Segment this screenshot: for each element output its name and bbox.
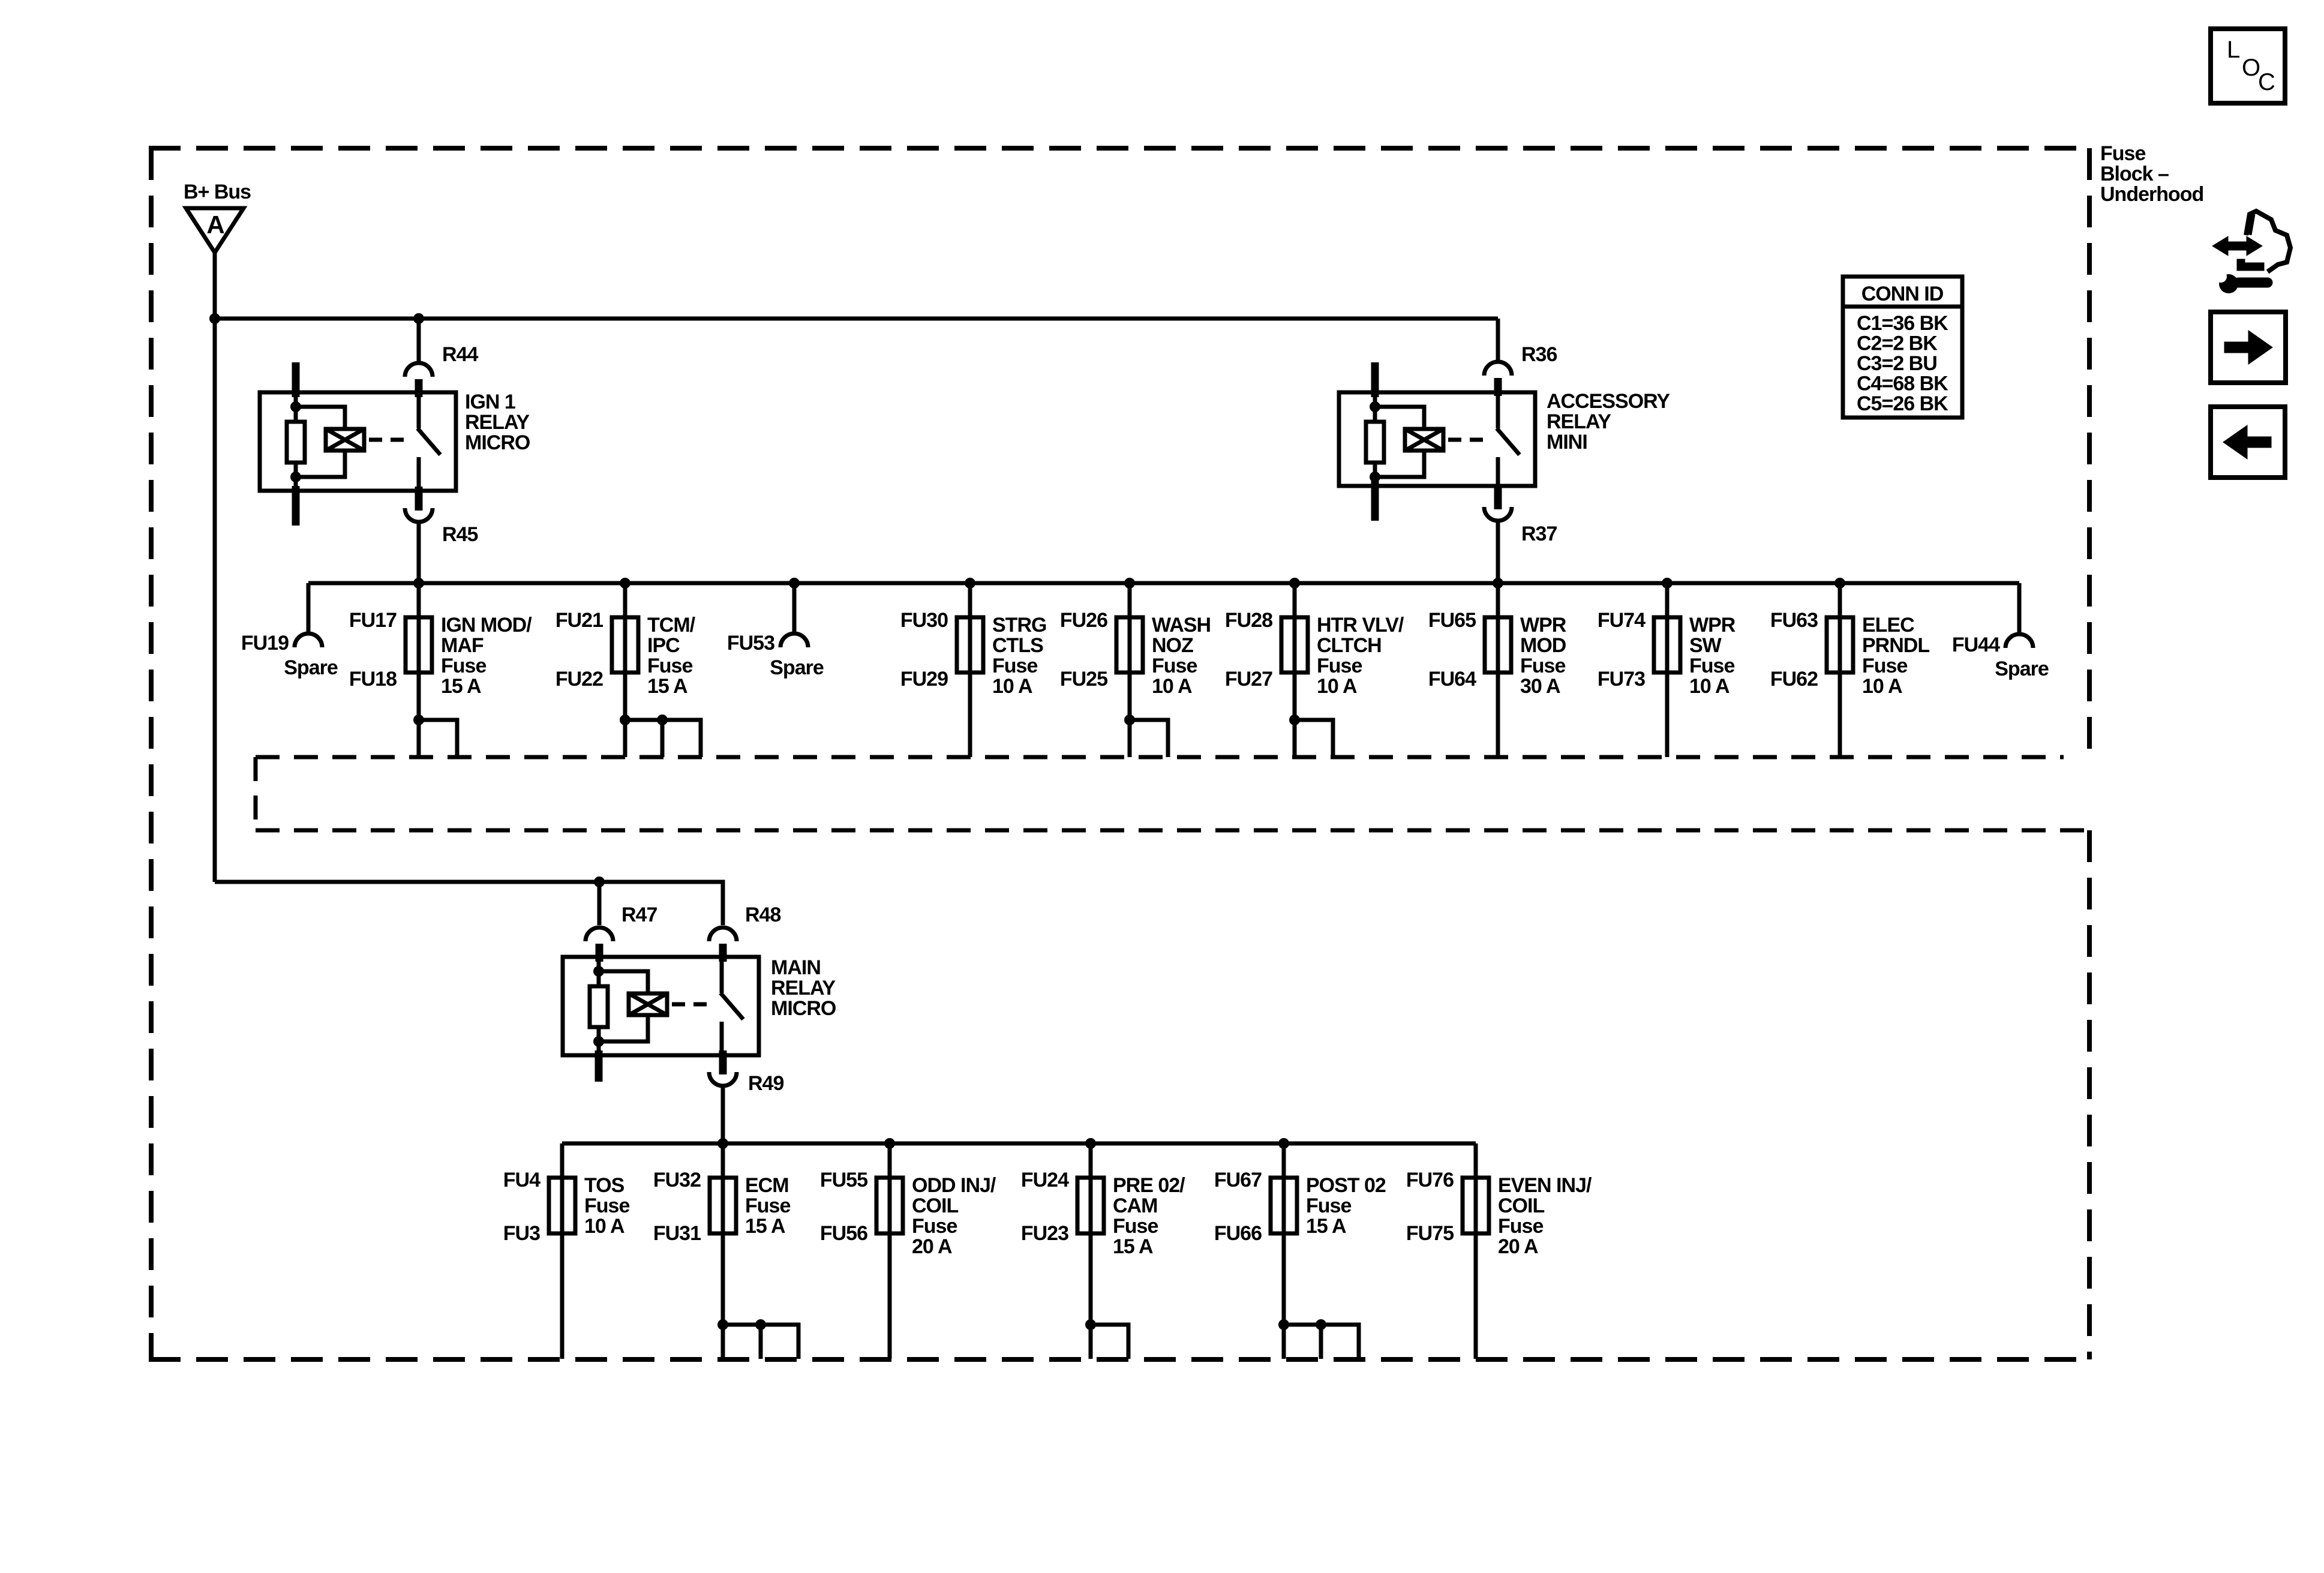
svg-text:CONN ID: CONN ID (1861, 283, 1944, 305)
fuse FU67/FU66 POST 02 (1214, 1143, 1386, 1359)
svg-text:10 A: 10 A (1689, 675, 1730, 698)
svg-text:Fuse: Fuse (1520, 655, 1565, 677)
svg-text:HTR VLV/: HTR VLV/ (1317, 614, 1404, 637)
svg-text:FU31: FU31 (653, 1222, 701, 1245)
svg-text:R45: R45 (442, 523, 478, 546)
svg-text:ACCESSORY: ACCESSORY (1547, 390, 1670, 413)
svg-text:Fuse: Fuse (1306, 1194, 1351, 1217)
svg-text:20 A: 20 A (1498, 1235, 1538, 1258)
CONN ID table (1843, 277, 1962, 418)
node B+ bus tap (209, 313, 220, 324)
svg-text:CTLS: CTLS (992, 634, 1043, 657)
fuse FU17/FU18 IGN MOD/ MAF (349, 583, 532, 757)
next page icon (right arrow) (2211, 312, 2286, 383)
svg-text:FU17: FU17 (349, 609, 397, 632)
svg-text:R44: R44 (442, 343, 478, 366)
svg-text:COIL: COIL (912, 1194, 958, 1217)
svg-text:Spare: Spare (284, 656, 338, 679)
wire R49 to fuse row 2 bus (721, 1086, 725, 1143)
svg-text:20 A: 20 A (912, 1235, 952, 1258)
svg-text:R36: R36 (1521, 343, 1557, 366)
wire B+ vertical feed (213, 253, 217, 882)
svg-text:IGN MOD/: IGN MOD/ (441, 614, 532, 637)
connector R47 (585, 903, 657, 962)
svg-text:MAF: MAF (441, 634, 484, 657)
svg-text:CLTCH: CLTCH (1317, 634, 1382, 657)
fuse FU76/FU75 EVEN INJ/ (1406, 1143, 1592, 1359)
svg-text:Fuse: Fuse (584, 1194, 629, 1217)
svg-text:Fuse: Fuse (1113, 1215, 1158, 1238)
svg-text:FU24: FU24 (1021, 1169, 1069, 1191)
svg-text:RELAY: RELAY (771, 977, 836, 999)
junction dot on row1 bus x=1324 (789, 578, 800, 589)
fuse block boundary (outer dashed border) (149, 148, 2089, 1359)
fuse FU65/FU64 WPR MOD (1428, 583, 1566, 757)
svg-text:Fuse: Fuse (745, 1194, 790, 1217)
svg-text:15 A: 15 A (745, 1215, 785, 1238)
svg-text:FU53: FU53 (727, 632, 774, 655)
svg-text:PRE 02/: PRE 02/ (1113, 1174, 1185, 1197)
connector R45 (405, 487, 478, 546)
wire fuse row 2 bus (562, 1142, 1476, 1146)
svg-text:MICRO: MICRO (771, 997, 836, 1020)
svg-text:Fuse: Fuse (1862, 655, 1907, 677)
junction dot on row1 bus x=2497 (1493, 578, 1503, 589)
svg-text:R48: R48 (745, 903, 780, 926)
svg-text:FU55: FU55 (820, 1169, 867, 1191)
svg-text:B+ Bus: B+ Bus (184, 181, 251, 203)
svg-text:10 A: 10 A (584, 1215, 624, 1238)
connector R44 (405, 343, 478, 397)
svg-text:MICRO: MICRO (465, 431, 530, 454)
svg-text:10 A: 10 A (1862, 675, 1902, 698)
svg-text:STRG: STRG (992, 614, 1046, 637)
svg-text:FU4: FU4 (503, 1169, 541, 1191)
spare connector FU44 (1952, 583, 2049, 680)
spare connector FU19 (241, 583, 338, 679)
svg-text:Fuse: Fuse (1689, 655, 1734, 677)
fuse FU21/FU22 TCM/ IPC (556, 583, 701, 757)
power symbol B+ Bus (triangle A) (184, 181, 251, 253)
svg-text:COIL: COIL (1498, 1194, 1544, 1217)
svg-text:IPC: IPC (647, 634, 680, 657)
svg-text:ECM: ECM (745, 1174, 789, 1197)
previous page icon (left arrow) (2211, 407, 2285, 478)
connector R37 (1484, 485, 1557, 545)
relay ACCESSORY RELAY MINI (1339, 362, 1670, 521)
svg-text:FU25: FU25 (1060, 668, 1107, 691)
svg-text:FU28: FU28 (1225, 609, 1272, 632)
junction dot on row1 bus x=1883 (1124, 578, 1135, 589)
svg-text:10 A: 10 A (1152, 675, 1192, 698)
junction dot on row1 bus x=1617 (965, 578, 975, 589)
svg-text:EVEN INJ/: EVEN INJ/ (1498, 1174, 1592, 1197)
svg-text:C: C (2258, 69, 2275, 95)
svg-text:FU44: FU44 (1952, 634, 2000, 656)
svg-text:FU56: FU56 (820, 1222, 867, 1245)
svg-text:FU32: FU32 (653, 1169, 701, 1191)
svg-text:C5=26 BK: C5=26 BK (1857, 392, 1948, 415)
svg-text:NOZ: NOZ (1152, 634, 1193, 657)
connector R48 (709, 903, 780, 962)
fuse FU30/FU29 STRG CTLS (900, 583, 1047, 757)
svg-text:15 A: 15 A (647, 675, 687, 698)
svg-text:FU18: FU18 (349, 668, 397, 691)
svg-text:FU23: FU23 (1021, 1222, 1068, 1245)
svg-text:FU26: FU26 (1060, 609, 1107, 632)
svg-text:FU63: FU63 (1770, 609, 1818, 632)
svg-text:SW: SW (1689, 634, 1722, 657)
svg-text:15 A: 15 A (1306, 1215, 1346, 1238)
fuse FU63/FU62 ELEC PRNDL (1770, 583, 1929, 757)
svg-text:WPR: WPR (1520, 614, 1566, 637)
junction dot on row2 bus x=1483 (884, 1138, 895, 1149)
svg-text:TCM/: TCM/ (647, 614, 696, 637)
svg-text:C3=2 BU: C3=2 BU (1857, 352, 1937, 375)
svg-text:FU3: FU3 (503, 1222, 540, 1245)
svg-text:POST 02: POST 02 (1306, 1174, 1386, 1197)
wire drop to R47 (597, 882, 602, 925)
svg-text:Fuse: Fuse (1317, 655, 1362, 677)
svg-text:R49: R49 (748, 1072, 783, 1095)
fuse block inner dashed slot (row divider) (256, 757, 2088, 830)
svg-text:MINI: MINI (1547, 431, 1587, 454)
wire drop to R44 (417, 319, 421, 364)
svg-text:MAIN: MAIN (771, 956, 821, 979)
connector R36 (1484, 343, 1557, 396)
svg-text:15 A: 15 A (1113, 1235, 1153, 1258)
junction dot on row1 bus x=2158 (1289, 578, 1300, 589)
fuse FU28/FU27 HTR VLV/ CLTCH (1225, 583, 1404, 757)
svg-text:PRNDL: PRNDL (1862, 634, 1929, 657)
svg-text:Fuse: Fuse (1498, 1215, 1543, 1238)
junction dot on row1 bus x=2779 (1662, 578, 1673, 589)
fuse FU24/FU23 PRE 02/ (1021, 1143, 1185, 1359)
wire R37 to fuse bus (1496, 521, 1500, 583)
svg-text:FU73: FU73 (1598, 668, 1645, 691)
svg-text:ODD INJ/: ODD INJ/ (912, 1174, 996, 1197)
fuse FU55/FU56 ODD INJ/ (820, 1143, 996, 1359)
connector R49 (709, 1050, 783, 1095)
svg-text:Fuse: Fuse (1152, 655, 1197, 677)
junction dot R44 drop (413, 313, 424, 324)
svg-text:Spare: Spare (770, 656, 824, 679)
svg-text:CAM: CAM (1113, 1194, 1157, 1217)
svg-text:FU30: FU30 (900, 609, 948, 632)
fuse FU26/FU25 WASH NOZ (1060, 583, 1211, 757)
svg-text:R47: R47 (621, 903, 657, 926)
junction dot on row2 bus x=2140 (1278, 1138, 1289, 1149)
svg-text:C4=68 BK: C4=68 BK (1857, 373, 1948, 395)
svg-text:FU19: FU19 (241, 632, 289, 655)
svg-text:Underhood: Underhood (2100, 183, 2203, 206)
wire top bus to relays (215, 317, 1498, 321)
svg-text:RELAY: RELAY (465, 411, 530, 434)
fuse FU32/FU31 ECM (653, 1143, 798, 1359)
svg-text:IGN 1: IGN 1 (465, 391, 515, 413)
svg-text:FU65: FU65 (1428, 609, 1476, 632)
svg-text:Block –: Block – (2100, 163, 2169, 185)
junction dot on row2 bus x=1205 (717, 1138, 728, 1149)
svg-text:Fuse: Fuse (2100, 142, 2145, 165)
svg-text:TOS: TOS (584, 1174, 624, 1197)
svg-text:Fuse: Fuse (912, 1215, 957, 1238)
svg-text:Fuse: Fuse (992, 655, 1037, 677)
svg-text:FU62: FU62 (1770, 668, 1818, 691)
junction dot on row1 bus x=698 (413, 578, 424, 589)
svg-text:FU74: FU74 (1598, 609, 1646, 632)
svg-text:A: A (206, 211, 224, 239)
component view icon (car with arrow and wrench) (2212, 211, 2290, 293)
junction dot on row1 bus x=3067 (1834, 578, 1845, 589)
svg-text:FU29: FU29 (900, 668, 948, 691)
wire B+ feed to main relay (215, 882, 723, 925)
wire fuse row 1 bus (308, 581, 2019, 586)
junction dot on row1 bus x=1042 (620, 578, 630, 589)
spare connector FU53 (727, 583, 824, 679)
svg-text:RELAY: RELAY (1547, 410, 1611, 433)
svg-text:FU66: FU66 (1214, 1222, 1262, 1245)
svg-text:Spare: Spare (1995, 658, 2049, 680)
svg-text:30 A: 30 A (1520, 675, 1560, 698)
label Fuse Block - Underhood (2100, 142, 2203, 206)
svg-text:FU75: FU75 (1406, 1222, 1454, 1245)
svg-text:R37: R37 (1521, 523, 1557, 545)
LOC page icon (2211, 29, 2285, 103)
svg-text:C1=36 BK: C1=36 BK (1857, 312, 1948, 335)
svg-text:ELEC: ELEC (1862, 614, 1914, 637)
svg-text:C2=2 BK: C2=2 BK (1857, 332, 1938, 355)
svg-text:Fuse: Fuse (647, 655, 692, 677)
relay MAIN RELAY MICRO (563, 956, 836, 1082)
relay IGN 1 RELAY MICRO (260, 362, 530, 526)
wire R45 to fuse bus (417, 522, 421, 583)
svg-text:L: L (2227, 37, 2240, 63)
svg-text:Fuse: Fuse (441, 655, 486, 677)
fuse FU74/FU73 WPR SW (1598, 583, 1736, 757)
svg-text:10 A: 10 A (992, 675, 1032, 698)
wire drop to R36 (1496, 319, 1500, 364)
svg-text:FU27: FU27 (1225, 668, 1272, 691)
junction dot on row2 bus x=1818 (1085, 1138, 1096, 1149)
svg-text:FU67: FU67 (1214, 1169, 1262, 1191)
svg-text:FU22: FU22 (556, 668, 603, 691)
svg-text:15 A: 15 A (441, 675, 481, 698)
svg-text:FU21: FU21 (556, 609, 603, 632)
svg-text:FU76: FU76 (1406, 1169, 1454, 1191)
svg-text:FU64: FU64 (1428, 668, 1476, 691)
junction dot R47 drop (594, 876, 605, 887)
svg-text:MOD: MOD (1520, 634, 1566, 657)
svg-text:WASH: WASH (1152, 614, 1211, 637)
fuse FU4/FU3 TOS (503, 1143, 630, 1359)
svg-text:10 A: 10 A (1317, 675, 1357, 698)
svg-text:WPR: WPR (1689, 614, 1736, 637)
